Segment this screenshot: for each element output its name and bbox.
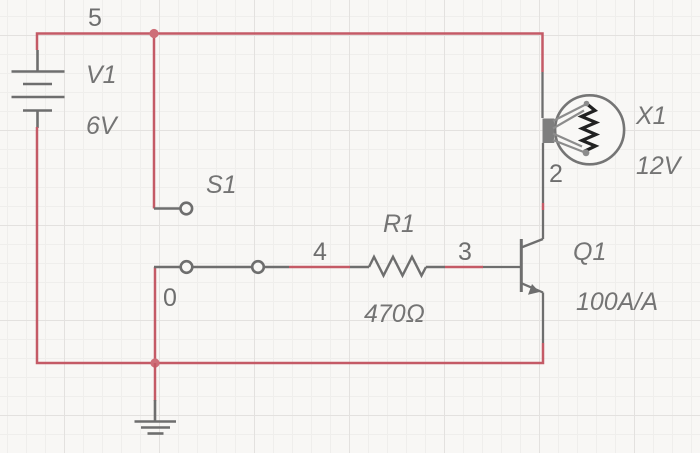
resistor R1 (350, 257, 445, 276)
wire net 5 drop to switch (153, 34, 156, 209)
transistor Q1 (483, 210, 543, 343)
svg-text:6V: 6V (86, 112, 119, 140)
wire net 3 (445, 266, 483, 269)
ground (135, 400, 177, 434)
svg-text:2: 2 (549, 160, 563, 188)
svg-text:X1: X1 (635, 102, 667, 130)
wire net 2 (542, 203, 545, 210)
switch S1 (154, 203, 289, 273)
wire net 0 left and bottom rail (37, 127, 543, 363)
svg-text:3: 3 (458, 238, 472, 266)
lamp X1 (543, 72, 625, 203)
svg-text:470Ω: 470Ω (364, 300, 425, 328)
svg-text:V1: V1 (86, 61, 117, 89)
svg-text:S1: S1 (206, 171, 237, 199)
svg-text:100A/A: 100A/A (576, 288, 658, 316)
svg-text:4: 4 (313, 238, 327, 266)
svg-text:5: 5 (88, 4, 102, 32)
svg-text:R1: R1 (383, 210, 415, 238)
wire net 5 top rail (37, 34, 543, 73)
svg-text:0: 0 (163, 284, 177, 312)
battery V1 (12, 50, 65, 128)
svg-text:12V: 12V (636, 152, 683, 180)
svg-text:Q1: Q1 (573, 238, 606, 266)
junction node 0 (150, 358, 159, 367)
wire net 4 (289, 266, 350, 269)
wire net 0 switch common drop (154, 267, 157, 363)
wire ground stub (154, 363, 157, 401)
junction node 5 (149, 29, 158, 38)
